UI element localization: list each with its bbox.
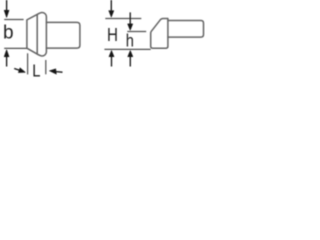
shank bar bbox=[168, 21, 204, 38]
dimension L: left extension line bbox=[27, 53, 29, 74]
dimension b: bottom extension line bbox=[4, 47, 27, 49]
rivet head inner edge bbox=[36, 15, 38, 54]
rivet head outer profile bbox=[27, 13, 47, 57]
dimension b: top extension line bbox=[4, 19, 23, 21]
dimension H: bottom arrow (up) bbox=[109, 50, 114, 66]
dimension L: right arrow (oblique, points left) bbox=[49, 69, 62, 74]
dimension h: top arrow (down) bbox=[128, 12, 133, 30]
dimension L: right extension line bbox=[45, 60, 47, 74]
right figure: offset head tool, side view bbox=[151, 19, 204, 49]
rivet shank bbox=[46, 22, 80, 48]
baseline under right figure bbox=[104, 48, 150, 50]
dimension b: bottom arrow (up) bbox=[4, 50, 9, 67]
dimension H: top arrow (down) bbox=[109, 0, 114, 17]
svg-text:b: b bbox=[3, 22, 14, 43]
svg-text:H: H bbox=[107, 25, 118, 46]
dimension h: bottom arrow (up) bbox=[128, 50, 133, 66]
svg-text:L: L bbox=[32, 61, 40, 81]
svg-text:h: h bbox=[126, 33, 134, 51]
head block with chamfered top-left bbox=[151, 19, 168, 49]
left figure: flared-head rivet, side view bbox=[27, 13, 80, 57]
dimension L: left arrow (oblique, points down-right) bbox=[14, 68, 25, 73]
dimension b: top arrow (down) bbox=[4, 0, 9, 18]
dimension h: top extension line bbox=[127, 31, 146, 33]
dimension H: top extension line bbox=[105, 18, 141, 20]
